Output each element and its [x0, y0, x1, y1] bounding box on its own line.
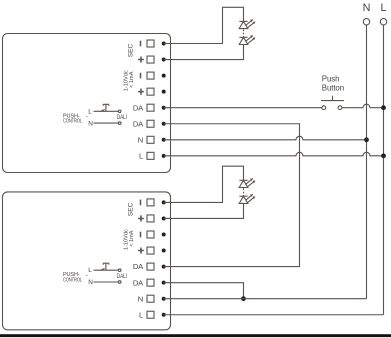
wire U2 N to N line	[164, 298, 367, 300]
U1 SEC label	[127, 44, 134, 58]
junction U1 L / L line	[381, 153, 386, 158]
svg-text:N: N	[138, 294, 143, 303]
svg-text:L: L	[139, 152, 143, 161]
U1 push-control switch symbol	[94, 104, 121, 124]
svg-text:Push: Push	[322, 75, 340, 84]
dashed link D3-D4	[243, 188, 245, 196]
wire U1 DA2 down to U2 DA1	[164, 124, 300, 267]
wire push button to L line with hop over N	[342, 104, 384, 107]
U2 push-control legend	[63, 267, 127, 286]
LED D2	[239, 35, 255, 44]
wire LED4 to U2 SEC+	[164, 203, 244, 218]
svg-text:Button: Button	[322, 84, 344, 93]
svg-text:< 1mA: < 1mA	[129, 71, 135, 88]
svg-text:DA: DA	[133, 119, 144, 128]
svg-text:SEC: SEC	[127, 202, 134, 216]
wire U1 N to N line with hop over DA bus	[164, 136, 367, 140]
dashed link D1-D2	[243, 29, 245, 37]
svg-text:SEC: SEC	[127, 44, 134, 58]
U2 1-10Vdc label	[124, 229, 135, 250]
L line	[383, 25, 385, 315]
svg-text:DA: DA	[133, 103, 144, 112]
wire U2 DA2 down to N wire	[164, 283, 244, 299]
svg-text:DALI: DALI	[117, 274, 127, 280]
svg-text:N: N	[88, 120, 93, 127]
svg-text:CONTROL: CONTROL	[63, 277, 82, 283]
N supply terminal circle	[363, 19, 369, 25]
U2 push-control switch symbol	[94, 263, 121, 283]
svg-text:DA: DA	[133, 278, 144, 287]
junction U2 DA2 / N wire	[241, 296, 246, 301]
push button PB1	[321, 96, 344, 110]
svg-text:CONTROL: CONTROL	[63, 118, 82, 124]
L supply terminal circle	[380, 19, 386, 25]
LED D1	[239, 19, 255, 28]
svg-text:N: N	[138, 135, 143, 144]
wire U1 DA1 to push button	[164, 107, 322, 109]
Push Button label	[322, 75, 344, 93]
svg-text:DA: DA	[133, 262, 144, 271]
U1 DA DA N L labels	[133, 103, 144, 160]
wire U2 SEC- to LED3	[164, 166, 244, 202]
svg-text:< 1mA: < 1mA	[129, 230, 135, 247]
wire U1 L to L line with hops over DA bus and N line	[164, 152, 384, 155]
svg-text:L: L	[88, 267, 92, 274]
U2 DA DA N L labels	[133, 262, 144, 319]
wire LED2 to U1 SEC+	[164, 45, 244, 60]
U1 push-control legend	[63, 108, 127, 127]
U1 terminal dots	[162, 42, 166, 158]
driver box U2	[3, 192, 171, 330]
svg-text:L: L	[380, 2, 386, 14]
wire U1 SEC- to LED1	[164, 7, 244, 43]
N line	[366, 25, 368, 299]
L supply label	[380, 2, 386, 14]
wire U2 L to L line	[164, 314, 384, 316]
svg-text:N: N	[88, 279, 93, 286]
N supply label	[363, 2, 371, 14]
svg-text:L: L	[139, 310, 143, 319]
U2 terminal dots	[162, 200, 166, 316]
svg-text:N: N	[363, 2, 371, 14]
junction push button / L line	[381, 105, 386, 110]
bottom table rule	[0, 334, 391, 337]
U2 SEC label	[127, 202, 134, 216]
LED D4	[239, 194, 255, 203]
U1 terminal squares	[147, 40, 154, 159]
junction U1 N / N line	[364, 137, 369, 142]
U1 1-10Vdc label	[124, 70, 135, 91]
LED D3	[239, 178, 255, 187]
U2 polarity marks	[138, 200, 144, 254]
U1 polarity marks	[138, 41, 144, 95]
U2 terminal squares	[147, 199, 154, 318]
svg-text:L: L	[88, 108, 92, 115]
driver box U1	[3, 34, 171, 173]
svg-text:DALI: DALI	[117, 115, 127, 121]
